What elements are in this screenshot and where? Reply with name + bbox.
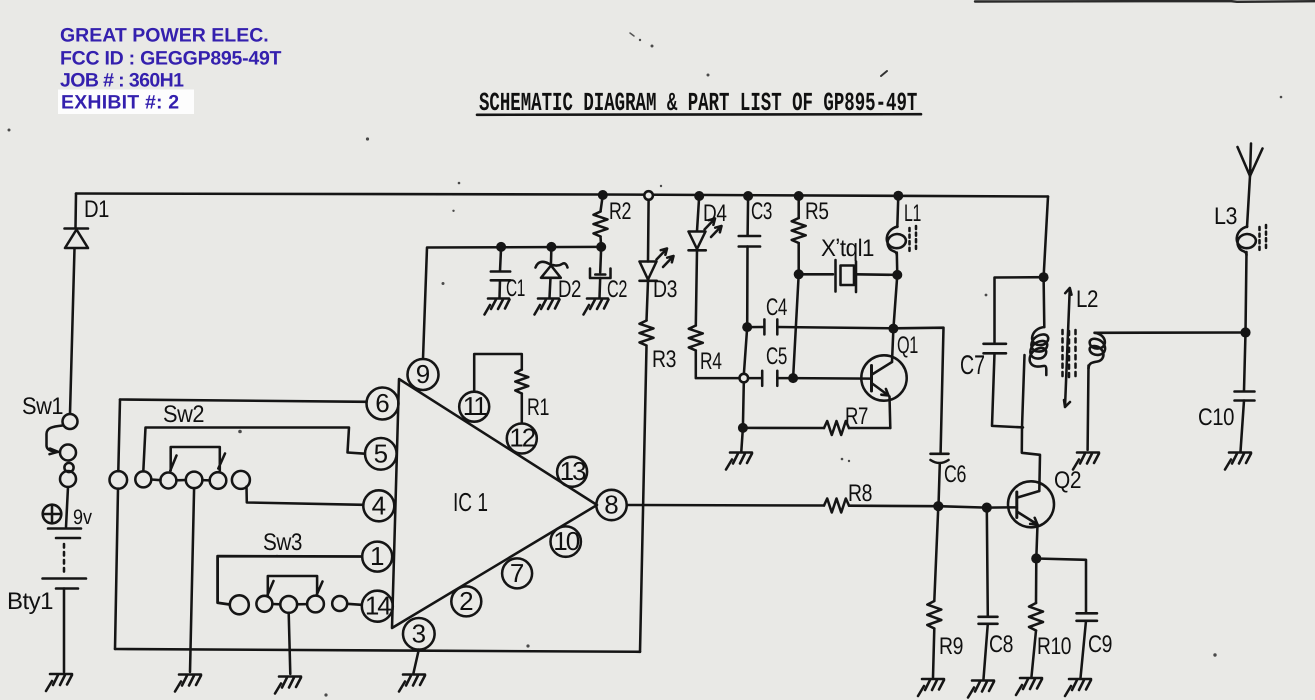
wire: rail right corner down to L2 node [1044, 197, 1048, 278]
resistor R4 [689, 250, 703, 350]
svg-text:9v: 9v [73, 506, 92, 529]
svg-text:IC 1: IC 1 [453, 487, 488, 517]
title underline [477, 113, 921, 116]
LED D3 [640, 200, 674, 281]
zener diode D2 [536, 247, 568, 298]
svg-text:Q2: Q2 [1054, 467, 1081, 494]
svg-text:11: 11 [463, 391, 488, 421]
node: R2 top junction [598, 190, 608, 200]
svg-text:R8: R8 [848, 480, 872, 507]
svg-text:Sw3: Sw3 [263, 529, 302, 556]
resistor R1 [515, 370, 528, 394]
svg-text:JOB # : 360H1: JOB # : 360H1 [60, 70, 184, 92]
pin 10 [551, 526, 581, 557]
wire: D1 to Sw1 [70, 249, 75, 414]
svg-text:Xʼtql1: Xʼtql1 [821, 235, 874, 262]
ground (R10) [1016, 678, 1042, 695]
wire: Sw2 pole to pin 5 [143, 428, 364, 472]
scan edge artifact top [975, 0, 1315, 3]
node: C1 junction [496, 242, 506, 252]
ground (pin 3) [399, 675, 425, 692]
svg-text:D3: D3 [653, 276, 677, 303]
Sw3 wiper bracket [268, 576, 323, 595]
node: R7 / ground junction [738, 423, 748, 433]
svg-text:Bty1: Bty1 [7, 588, 53, 615]
resistor R5 [792, 196, 806, 274]
node: C5/R5 junction [788, 373, 798, 383]
pin 1 [362, 541, 392, 572]
inductor L2 primary [1030, 277, 1049, 375]
node: R5 top junction [794, 191, 804, 201]
wire: R5 bottom down to Q1 base node [793, 274, 799, 378]
wire: L2 secondary top to antenna node [1095, 331, 1246, 334]
wire: junction to C8 node [938, 506, 987, 507]
svg-text:D1: D1 [84, 196, 109, 223]
svg-text:8: 8 [604, 490, 618, 520]
svg-text:L2: L2 [1076, 286, 1098, 313]
pin 12 [507, 423, 537, 454]
node: Q2 emitter junction [1031, 553, 1041, 563]
pin 4 [363, 490, 394, 521]
svg-text:C2: C2 [607, 276, 627, 303]
transistor Q1 [861, 355, 906, 400]
crystal X'tql1 [799, 260, 898, 292]
wire: pin 3 to ground [414, 650, 419, 673]
wire: top supply rail [76, 194, 1048, 197]
transistor Q2 [1008, 481, 1054, 527]
svg-text:R1: R1 [527, 394, 549, 421]
resistor R2 [594, 195, 608, 247]
title: SCHEMATIC DIAGRAM & PART LIST OF GP895-49T [479, 91, 917, 120]
capacitor C2 [590, 247, 611, 298]
wire: rail corner down to D1 [74, 194, 77, 228]
wire: Sw2 common to ground [190, 488, 194, 672]
capacitor C8 [979, 508, 998, 679]
svg-text:GREAT POWER ELEC.: GREAT POWER ELEC. [60, 25, 269, 47]
svg-text:6: 6 [375, 388, 389, 418]
wire: bottom return rail [115, 649, 640, 652]
wire: C4 node down to C5 node [744, 327, 747, 374]
svg-text:R3: R3 [652, 346, 676, 373]
svg-text:C3: C3 [751, 198, 772, 225]
battery Bty1 [43, 529, 87, 589]
pin 6 [367, 388, 399, 420]
wire: L3 to antenna node [1246, 252, 1247, 333]
svg-text:9: 9 [416, 359, 430, 389]
wire: pin 11 loop to R1 [474, 354, 522, 392]
wire: R8 to Q2 base [849, 504, 938, 507]
svg-text:L1: L1 [904, 200, 921, 227]
ground (oscillator node) [726, 453, 752, 470]
pin 5 [365, 438, 397, 470]
node: L2 primary top junction [1039, 272, 1049, 282]
svg-text:R4: R4 [700, 348, 722, 375]
svg-text:2: 2 [459, 586, 473, 616]
capacitor C9 [1036, 559, 1097, 679]
ground (R9) [918, 679, 944, 696]
resistor R3 [640, 281, 654, 346]
pin 3 [403, 618, 435, 650]
node: crystal right junction [892, 270, 902, 280]
svg-text:R2: R2 [609, 198, 631, 225]
ground (C2) [584, 299, 609, 315]
svg-text:R10: R10 [1037, 633, 1071, 660]
ground (L2 secondary) [1073, 453, 1099, 470]
svg-text:FCC ID : GEGGP895-49T: FCC ID : GEGGP895-49T [60, 48, 282, 70]
wire: Q2 emitter down [1036, 525, 1037, 559]
pin 2 [451, 586, 481, 616]
svg-text:R7: R7 [845, 403, 868, 430]
wire: pin 1 to Sw3 [218, 556, 362, 604]
switch Sw1 [47, 414, 78, 487]
resistor R7 [743, 421, 890, 435]
wire: Sw2 box left edge [115, 400, 120, 650]
svg-text:Sw2: Sw2 [163, 401, 204, 428]
svg-text:12: 12 [509, 423, 535, 453]
inductor L3 [1237, 176, 1266, 255]
svg-text:10: 10 [553, 526, 579, 556]
capacitor C6 [931, 454, 949, 506]
wire: Sw3 common to ground [289, 613, 291, 674]
wire: L2 tap down to Q2 collector [1022, 355, 1040, 491]
ground (C9) [1065, 679, 1091, 696]
wire: C5 node down to ground [741, 382, 744, 451]
resistor R9 [927, 506, 941, 677]
svg-text:Sw1: Sw1 [22, 393, 63, 420]
svg-text:13: 13 [560, 456, 586, 486]
svg-text:D2: D2 [558, 276, 581, 303]
wire: junction right and down to C6 [893, 328, 943, 453]
resistor R10 [1029, 559, 1043, 677]
svg-text:EXHIBIT #: 2: EXHIBIT #: 2 [61, 92, 179, 114]
node: L1 top junction [893, 191, 903, 201]
wire: node left to C7 [995, 277, 1044, 342]
node: D2 junction [546, 242, 556, 252]
node: R5 bottom / crystal left junction [794, 269, 804, 279]
wire: Q1 emitter down [888, 397, 891, 429]
wire: pin 9 up to C1 node rail [423, 247, 601, 359]
svg-text:5: 5 [374, 439, 388, 469]
wire: crystal node down to Q1 collector [892, 275, 897, 362]
capacitor C1 [491, 247, 510, 298]
resistor R8 [824, 499, 849, 513]
ground (Sw3) [275, 677, 301, 694]
svg-text:C7: C7 [960, 350, 985, 380]
Sw2 wiper bracket [170, 447, 225, 471]
inductor L1 [887, 196, 916, 275]
svg-text:4: 4 [372, 491, 386, 521]
pin 7 [502, 558, 532, 588]
pin 13 [557, 456, 587, 487]
ground (C10) [1225, 453, 1251, 470]
wire: pin 8 output to R8 [627, 504, 824, 507]
svg-text:C9: C9 [1088, 631, 1112, 658]
switch Sw2 contacts [110, 471, 250, 489]
node: C8 junction [982, 503, 992, 513]
wire: R3 down to bottom rail [640, 347, 647, 652]
wire: Sw1 to battery [66, 487, 68, 527]
wire: battery to ground [63, 589, 66, 673]
node: R8/C6/R9 junction [933, 501, 943, 511]
op-amp U1 IC1 triangle body [392, 379, 597, 628]
node: D3 top connector [644, 191, 653, 200]
svg-text:7: 7 [510, 558, 524, 588]
capacitor C10 [1235, 333, 1255, 452]
svg-text:C4: C4 [766, 294, 787, 321]
node: R2 bottom / C2 top junction [596, 242, 606, 252]
capacitor C4 [747, 319, 893, 334]
node: C5 left connector [740, 374, 749, 383]
ground (D2) [535, 299, 560, 315]
L2 core (dashed) [1063, 330, 1076, 381]
wire: R1 to pin 12 [521, 394, 524, 424]
capacitor C5 [748, 371, 793, 386]
wire: Sw2 to pin 4 [247, 487, 364, 505]
node: Q1 collector / C6 junction [888, 324, 898, 334]
wire: Sw2 box top edge to pin 6 [120, 400, 367, 402]
pin 8 [596, 490, 626, 521]
switch Sw3 contacts [230, 595, 362, 614]
svg-text:3: 3 [412, 619, 426, 649]
capacitor C3 [739, 196, 760, 327]
wire: R4 to C5 node [696, 351, 740, 379]
battery polarity symbol (+) [43, 505, 62, 524]
pin 11 [459, 391, 489, 422]
pin 9 [408, 359, 439, 390]
svg-text:C10: C10 [1198, 404, 1234, 431]
svg-text:C8: C8 [989, 631, 1013, 658]
ground (battery) [46, 674, 72, 691]
L2 tuning arrow [1064, 288, 1072, 407]
diode D1 [65, 229, 89, 249]
svg-text:C6: C6 [944, 461, 966, 488]
node: C3/C4 junction [742, 322, 752, 332]
svg-text:L3: L3 [1214, 203, 1237, 230]
svg-text:R9: R9 [939, 633, 963, 660]
inductor L2 secondary [1088, 333, 1105, 450]
wire: to Q2 base [987, 506, 1017, 509]
ground (Sw2) [175, 675, 201, 692]
FCC header stamp: GREAT POWER ELEC. [60, 25, 282, 92]
svg-text:1: 1 [370, 541, 384, 571]
svg-text:R5: R5 [805, 198, 829, 225]
capacitor C7 [984, 344, 1024, 428]
svg-text:Q1: Q1 [897, 332, 918, 359]
exhibit highlight box [58, 90, 194, 115]
node: C3 top junction [743, 191, 753, 201]
LED D4 [689, 196, 722, 250]
node: antenna feed junction [1240, 327, 1250, 337]
ground (C8) [968, 681, 994, 698]
wire: Q1 base from C5 node [793, 377, 871, 380]
svg-text:14: 14 [365, 591, 391, 621]
ground (C1) [485, 299, 510, 315]
svg-text:C5: C5 [766, 343, 787, 370]
pin 14 [362, 591, 393, 622]
antenna [1238, 144, 1263, 177]
node: D4 junction [694, 191, 704, 201]
svg-text:D4: D4 [703, 200, 727, 227]
